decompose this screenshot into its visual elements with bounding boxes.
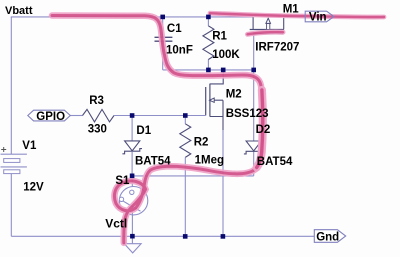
- switch S1: [119, 176, 148, 236]
- svg-text:R3: R3: [89, 95, 104, 107]
- svg-text:Vin: Vin: [309, 12, 327, 24]
- value 1Meg: [195, 154, 224, 166]
- svg-text:BSS123: BSS123: [226, 108, 269, 120]
- wire: S1 node to D2 cathode (horizontal): [132, 175, 254, 177]
- wire: M1 gate lead down to gate node: [253, 34, 255, 70]
- svg-text:Gnd: Gnd: [316, 231, 339, 243]
- node flag Vin: [305, 11, 334, 24]
- battery V1: [1, 147, 27, 174]
- svg-text:BAT54: BAT54: [257, 156, 293, 168]
- wire: top rail M1 drain to Vin flag: [284, 16, 306, 18]
- pink highlight: swipe over M1 gate bar: [248, 32, 284, 34]
- svg-text:IRF7207: IRF7207: [255, 41, 299, 53]
- wire: R1 top lead: [207, 17, 209, 26]
- label R1: [212, 31, 227, 43]
- junction node: R1 top: [206, 15, 211, 20]
- wire: M2 source down to ground rail: [222, 130, 224, 236]
- pink highlight: top rail over M1 to Vin: [210, 13, 384, 17]
- junction node: M2 drain on gate rail: [221, 68, 226, 73]
- svg-text:Vbatt: Vbatt: [5, 5, 33, 17]
- junction node: M2 source on ground rail: [221, 234, 226, 239]
- wire: R3 to M2 gate rail: [114, 115, 206, 117]
- value 10nF: [166, 45, 193, 57]
- pink highlight: Vbatt through gate path, D2, loop around S1, to ground: [52, 16, 262, 243]
- svg-text:D2: D2: [256, 124, 271, 136]
- transistor M1 (P-MOSFET horizontal): [250, 17, 284, 34]
- label M1: [283, 4, 300, 16]
- value 12V: [23, 182, 44, 194]
- wire: D2 cathode lead: [253, 152, 255, 176]
- wire: left vertical battery to bottom rail: [10, 174, 12, 237]
- svg-text:V1: V1: [22, 140, 37, 152]
- node flag Gnd: [314, 230, 345, 244]
- value BAT54 of D2: [257, 156, 293, 168]
- wire: D1 cathode to S1 node: [131, 151, 133, 175]
- resistor R2: [180, 116, 191, 237]
- label R2: [194, 137, 209, 149]
- junction node: R2 bottom on ground rail: [183, 234, 188, 239]
- wire: bottom ground rail: [11, 235, 314, 237]
- junction node: D1 top: [130, 113, 135, 118]
- svg-text:M1: M1: [283, 4, 300, 16]
- svg-text:Vctl: Vctl: [105, 217, 127, 231]
- value IRF7207: [255, 41, 299, 53]
- junction node: C1 top: [160, 15, 165, 20]
- svg-text:M2: M2: [226, 89, 242, 101]
- svg-text:C1: C1: [167, 23, 182, 35]
- svg-text:10nF: 10nF: [166, 45, 193, 57]
- value 100K: [212, 49, 240, 61]
- label R3: [89, 95, 104, 107]
- wire: R1 bottom lead: [207, 60, 209, 70]
- value BAT54 of D1: [135, 155, 171, 167]
- svg-text:GPIO: GPIO: [36, 111, 65, 123]
- svg-text:R2: R2: [194, 137, 209, 149]
- resistor R3: [83, 109, 115, 122]
- capacitor C1: [155, 37, 173, 41]
- label C1: [167, 23, 182, 35]
- value 330: [88, 123, 107, 135]
- wire: top rail Vbatt to M1 source: [11, 16, 253, 18]
- svg-text:12V: 12V: [23, 182, 44, 194]
- svg-text:S1: S1: [115, 175, 130, 187]
- junction node: S1 bottom on ground rail: [130, 234, 135, 239]
- label D2: [256, 124, 271, 136]
- junction node: M1 gate / D2 node: [251, 68, 256, 73]
- wire: C1 bottom lead: [162, 41, 164, 70]
- diode D1 (schottky): [122, 141, 142, 154]
- label S1: [115, 175, 130, 187]
- svg-text:330: 330: [88, 123, 107, 135]
- node label Vbatt: [5, 5, 33, 17]
- junction node: S1 top / Vctl: [130, 174, 135, 179]
- junction node: R2 / M2 gate: [183, 113, 188, 118]
- resistor R1: [203, 26, 214, 60]
- wire: C1 top lead: [162, 17, 164, 37]
- wire: gate rail (C1 bottom to M1 gate node): [163, 69, 254, 71]
- wire: GPIO control rail: [70, 115, 82, 117]
- value BSS123: [226, 108, 269, 120]
- node flag GPIO: [28, 110, 71, 123]
- svg-text:R1: R1: [212, 31, 227, 43]
- wire: left vertical from Vbatt corner to battery: [10, 17, 12, 154]
- diode D2 (schottky): [244, 141, 264, 154]
- junction node: R1 bottom on gate rail: [206, 68, 211, 73]
- label V1: [22, 140, 37, 152]
- wire: D1 anode lead: [131, 116, 133, 141]
- svg-text:100K: 100K: [212, 49, 240, 61]
- transistor M2 (N-MOSFET): [206, 70, 224, 130]
- label M2: [226, 89, 242, 101]
- svg-text:BAT54: BAT54: [135, 155, 171, 167]
- node label Vctl: [105, 217, 127, 231]
- wire: gate node down to D2 anode: [253, 70, 255, 141]
- svg-text:1Meg: 1Meg: [195, 154, 224, 166]
- pink highlight: thicker overlay on D2 vertical run: [257, 90, 263, 167]
- svg-text:D1: D1: [136, 125, 151, 137]
- ground flag: [124, 236, 141, 253]
- label D1: [136, 125, 151, 137]
